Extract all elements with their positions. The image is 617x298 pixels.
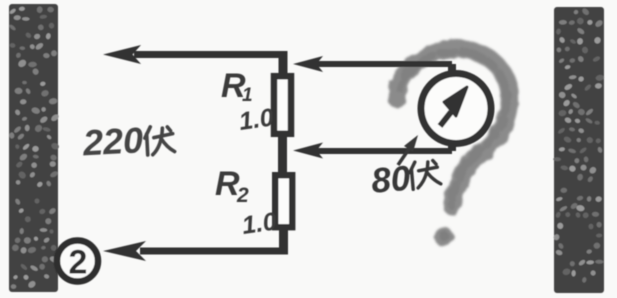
terminal node 2 (circled) (57, 241, 98, 282)
label R1 (221, 67, 253, 106)
resistor R2 (275, 175, 292, 227)
svg-text:80: 80 (370, 159, 413, 201)
wire: voltmeter bottom lead with arrowhead into middle node (293, 142, 452, 159)
resistor R1 (274, 76, 291, 134)
label 220伏 (source voltage) (81, 118, 175, 164)
wire: junction between R1 and R2 (middle node) (278, 134, 287, 176)
wire: bottom conductor to source with arrowhead (103, 228, 288, 261)
svg-text:220: 220 (81, 119, 144, 163)
annotation arrow from 80伏 to meter lead (398, 135, 418, 165)
svg-text:2: 2 (236, 184, 249, 207)
svg-text:2: 2 (69, 244, 88, 282)
wire: top conductor to 220V source with arrowhead (103, 45, 283, 74)
svg-text:1.0: 1.0 (237, 103, 275, 136)
annotation question mark (388, 49, 510, 246)
label R2 (215, 165, 249, 207)
label 80伏 (voltmeter reading) (370, 156, 442, 201)
voltmeter (421, 74, 491, 144)
svg-text:1.0: 1.0 (240, 207, 278, 240)
svg-text:1: 1 (242, 85, 253, 106)
wire: voltmeter top lead with arrowhead into top node (293, 56, 452, 74)
